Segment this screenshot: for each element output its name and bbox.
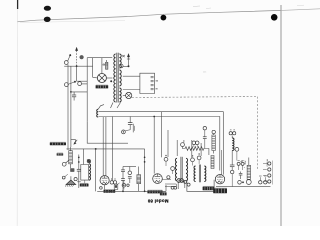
terminal GND blob	[80, 55, 84, 59]
labels: right text stack	[0, 0, 1, 1]
node junction	[70, 91, 72, 93]
wire: cathode column with bypass capacitor C2	[77, 155, 81, 189]
dashed boundary: speaker unit top	[132, 96, 257, 99]
node: bus junction dots	[110, 190, 146, 192]
power transformer T1 primary winding	[114, 54, 116, 102]
terminal circles under V1	[100, 187, 103, 190]
pot wiper terminal	[62, 160, 69, 179]
volume control potentiometer R1	[69, 147, 73, 168]
faint pencil marks top	[193, 5, 200, 8]
wire: transformer tap to choke lower	[123, 89, 140, 91]
fuse lamp with hatch	[120, 64, 124, 68]
small shielded box with blob	[114, 183, 119, 190]
wire: pot feed corner	[71, 140, 76, 142]
scan artifact: right page edge line	[280, 5, 282, 226]
wire: B+ bus 1 with right-angle drop	[99, 112, 224, 175]
resistor R2 (hatched)	[137, 175, 141, 184]
filter choke box (speaker field)	[140, 73, 155, 93]
wire: L2 bottom lead with capacitor C10	[230, 151, 235, 187]
wire: B+ bus 2 with right-angle drop	[99, 117, 220, 171]
wire: extra heater drop to V4	[220, 150, 222, 175]
power transformer T1 rect filament winding	[119, 70, 121, 86]
output transformer T4 primary	[194, 166, 196, 182]
resistor R5 vertical with terminal	[212, 130, 216, 153]
label: RECT 280	[96, 85, 109, 88]
power line arrow (to 110V AC)	[127, 54, 130, 67]
switch marks	[122, 55, 124, 57]
tiny text column far right	[243, 159, 267, 167]
terminal circles above R3	[192, 141, 199, 147]
wire: transformer tap to choke	[123, 75, 140, 77]
svg-text:M: M	[156, 89, 158, 91]
wire: input top bus	[64, 65, 92, 67]
tube V2 (27 detector)	[153, 174, 163, 184]
IF transformer T3 primary	[175, 158, 177, 181]
bypass terminal	[171, 167, 175, 174]
dial lamp with hatch	[123, 92, 132, 98]
output transformer T4 secondary	[204, 166, 206, 182]
wire: rectifier loop left vertical	[86, 58, 88, 122]
pot lower terminal blob	[70, 168, 74, 172]
wire: transformer bottom drop 1	[111, 103, 114, 109]
terminal with + (plate supply)	[191, 155, 195, 165]
resistor R9 (hum balance)	[106, 60, 108, 69]
wire: V1 bottom lead	[104, 185, 106, 190]
capacitor C9 stack right	[239, 172, 243, 180]
label: V4 output type	[203, 187, 215, 191]
capacitor column with terminal above zigzag	[203, 127, 207, 149]
terminal with + (second)	[197, 153, 201, 164]
grid leak terminal	[128, 167, 132, 184]
dashed boundary: speaker unit right	[256, 97, 258, 170]
label: V2 type	[147, 190, 162, 193]
terminal pair at V1 plate	[110, 178, 117, 184]
wire: rectifier filament row	[93, 76, 98, 79]
terminal ANT with switch arm	[64, 54, 71, 64]
label: VOLUME CONTROL	[50, 143, 66, 146]
wire: R2 leads	[138, 167, 140, 192]
tube V1 (24A RF/det)	[100, 176, 109, 185]
RF coil T2 form (box)	[81, 165, 89, 181]
terminal LOC	[65, 83, 69, 87]
wire: bottom bus right section	[216, 186, 271, 188]
label: 500M	[57, 153, 64, 155]
terminal at R3	[181, 143, 185, 147]
binder hole dot right	[271, 14, 278, 21]
IF transformer T3 core	[181, 157, 182, 183]
cathode terminal right of V2	[162, 176, 171, 180]
label: 30 ohm	[103, 64, 105, 66]
wire: rectifier loop top	[87, 57, 112, 59]
wire: R3 left lead	[183, 147, 186, 149]
wire: bottom bus left section	[97, 190, 166, 192]
IF transformer T3 secondary	[186, 158, 188, 181]
node: junction on row	[95, 148, 97, 150]
wire: T2 leads	[84, 149, 85, 183]
binder hole blob upper	[44, 6, 51, 11]
power transformer T1 heater winding	[119, 88, 121, 102]
terminal DIS with link arm	[68, 81, 81, 86]
label: V1 type	[104, 190, 116, 193]
label: T2 coil	[80, 184, 89, 187]
wire: transformer bottom drop 2	[117, 103, 121, 109]
rectifier tube V5 (type 80)	[97, 58, 112, 83]
wire: link row	[77, 80, 88, 82]
socket bracket under V2	[165, 184, 177, 189]
wire: T3 bottom leads	[178, 181, 185, 189]
caption: Model 80 (stamped upside-down)	[147, 199, 168, 204]
label: AF note	[160, 192, 167, 195]
wire: antenna vertical segment	[76, 66, 78, 81]
phono jack circles	[259, 176, 267, 184]
output transformer T4 core	[199, 165, 200, 183]
resistor R3 (zigzag)	[185, 147, 204, 151]
scan artifact: sloped fold line	[17, 10, 281, 21]
resistor R6 below R5	[211, 156, 214, 169]
svg-text:PHONO: PHONO	[266, 159, 268, 167]
svg-text:Model 80: Model 80	[147, 199, 168, 204]
wire: V2 grid lead from bus2	[153, 117, 155, 174]
tube V4 (45 output)	[215, 175, 224, 184]
svg-text:25M: 25M	[243, 161, 245, 165]
wire: rectifier loop vertical lower part with corner to RF row	[87, 122, 128, 144]
wire: junction drop to bottom bus	[95, 149, 97, 191]
terminal left of T2	[74, 178, 81, 182]
terminal pair inside box	[184, 180, 190, 186]
node at bus2	[153, 116, 155, 118]
wire: drop e	[191, 140, 193, 158]
wire: screen column with junction dots	[144, 149, 146, 191]
antenna lead-in (dashed) with arrow	[75, 47, 77, 66]
wire: heater pair down to V1	[102, 117, 104, 176]
scan artifact: left margin tick	[17, 0, 19, 9]
wire: V2 to bus	[165, 185, 167, 191]
electrolytic capacitor C8 with can	[122, 117, 135, 134]
wire: R3 right lead	[204, 149, 209, 156]
node	[128, 65, 130, 67]
chassis ground (triangle with hatched base)	[65, 176, 75, 186]
wire: coil lead to transformer bottom	[98, 105, 104, 110]
potentiometer arrow	[74, 140, 78, 145]
wire: link row lower	[82, 83, 88, 85]
wire: coupling row	[123, 166, 136, 168]
RF coil T2 winding	[89, 164, 91, 180]
wire: row to RF coil	[66, 148, 144, 150]
grid terminal with marks	[122, 181, 129, 189]
wire: drop to IF transformer	[176, 140, 178, 156]
choke L2 vertical winding with terminals	[229, 130, 236, 138]
binder hole dot middle	[161, 15, 167, 21]
terminal pair lower right	[238, 181, 244, 185]
capacitor C1 (antenna series)	[72, 92, 76, 101]
shield box around output transformer	[187, 180, 214, 192]
label: V4 number	[213, 188, 227, 193]
terminal trio with labels	[237, 161, 244, 170]
capacitor C3 stack	[121, 167, 125, 192]
wire: ground row	[71, 91, 87, 93]
dark terminal pair (grid caps)	[177, 179, 184, 183]
wire: vertical drop b	[167, 130, 169, 157]
terminal strip right edge	[263, 161, 272, 185]
trimmer capacitor above T2 (dark)	[87, 159, 91, 163]
tiny label column	[240, 161, 246, 169]
resistor R7 vertical with bottom terminal	[246, 158, 251, 185]
power transformer T1 core	[117, 53, 118, 103]
wire: drop f	[200, 143, 202, 156]
wire: long vertical from ANT terminals down to volume control	[67, 64, 69, 150]
wire: drop to V1 plate terminals	[111, 117, 113, 181]
power transformer T1 HV secondary	[119, 54, 121, 68]
terminal circle	[235, 147, 239, 160]
wire: small loop vertical	[92, 58, 94, 78]
node: rectifier output	[110, 80, 112, 82]
grid return terminal with + mark	[164, 155, 168, 166]
binder hole blob lower	[44, 17, 51, 22]
filter choke L3 (mini coil at bus head)	[97, 109, 99, 117]
wire: second long vertical	[70, 66, 72, 147]
node: antenna junction	[76, 65, 78, 67]
wire: drop from bus1	[160, 112, 162, 158]
wire: to line arrow	[123, 65, 129, 67]
wire: drop d	[183, 140, 185, 143]
